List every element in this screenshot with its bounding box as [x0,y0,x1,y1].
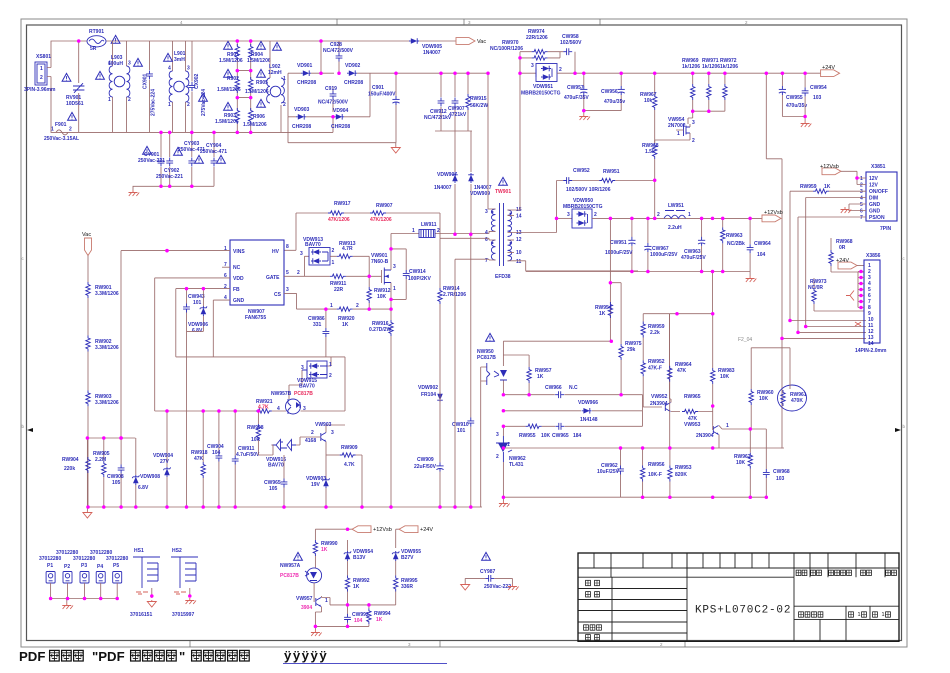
resistor RW901 [86,256,119,299]
diode VDW902 FR104 [418,385,443,402]
svg-text:105: 105 [112,480,121,486]
svg-text:6: 6 [860,209,863,215]
warning triangle above NW950 [486,333,495,341]
svg-text:1K: 1K [353,584,360,590]
capacitor CW904 104 [207,411,224,507]
svg-text:+12Vsb: +12Vsb [764,210,783,216]
svg-text:VW903: VW903 [315,422,332,428]
wire: standby bottom [315,626,369,630]
wire: link between resistor columns [237,71,250,98]
svg-text:4: 4 [485,230,488,236]
junction [119,505,123,509]
ferrite bead LW911 [391,222,489,238]
junction [582,109,586,113]
wire: pin6 [440,238,496,240]
svg-text:12V: 12V [869,176,879,182]
junction [439,71,443,75]
svg-text:ON/OFF: ON/OFF [869,189,888,195]
wire: opto feed row [503,340,610,342]
resistor R904 [247,41,271,79]
svg-text:GATE: GATE [266,275,280,281]
fuse F901 [44,122,79,142]
resistor RW970 NC/100R/1206 [490,40,560,60]
junction [749,427,753,431]
junction [236,131,240,135]
wire: VDD bus y411 [155,278,345,411]
capacitor CW992 104 [344,605,369,627]
BOTTOM TEXT LINE: PDF 文件以 "PDF 制作工厂" 试用版创建 ÿÿÿÿÿ [19,648,328,664]
junction [707,71,711,75]
pad P5 [106,556,128,599]
svg-text:1: 1 [507,442,510,448]
svg-text:TL431: TL431 [509,462,524,468]
junction [49,597,53,601]
diode VD902 [344,63,363,86]
wire: FB bottom rail [176,356,345,358]
svg-text:NW957B: NW957B [271,391,292,397]
wire: feed down to logic [766,73,782,448]
ground: CW954 [801,121,812,127]
svg-text:150uF/400V: 150uF/400V [368,92,396,98]
svg-text:GND: GND [233,298,245,304]
svg-text:FR104: FR104 [421,392,436,398]
junction [190,185,194,189]
wire: clamp bottom rail [435,131,472,172]
junction [781,71,785,75]
warning triangle below CX902 [199,93,208,101]
svg-text:1000uF/25V: 1000uF/25V [605,250,633,256]
wire: resistor trio bottom bus [693,111,725,118]
junction [212,131,216,135]
svg-text:BAV70: BAV70 [305,242,321,248]
junction [859,288,863,292]
resistor RW969 1k/1206 [682,58,700,111]
warning triangle CY904 [217,155,226,163]
svg-text:336R: 336R [401,584,413,590]
svg-text:R906: R906 [253,114,265,120]
ground: CY987 right [508,584,519,590]
svg-text:CW914: CW914 [409,269,426,275]
startup resistor row RW917 RW907 [284,201,440,250]
svg-text:7: 7 [860,215,863,221]
svg-text:3: 3 [860,189,863,195]
snubber row CW952 RW951 [557,168,655,218]
capacitor C919 [318,86,349,106]
resistor RW918 47K [191,411,208,507]
svg-text:3: 3 [567,212,570,218]
common mode choke L903 [108,41,131,132]
svg-text:37012280: 37012280 [39,556,61,562]
wire: bridge return rail [288,117,396,143]
junction [721,217,725,221]
bulk capacitor C901 [368,73,400,143]
svg-text:C901: C901 [372,85,384,91]
junction [324,505,328,509]
svg-text:1.5k: 1.5k [645,149,655,155]
svg-text:2: 2 [224,284,227,290]
junction [389,505,393,509]
svg-text:CHR208: CHR208 [344,80,363,86]
ground: primary bus left [83,507,92,518]
MOSFET VW901 7N60-B [371,234,396,310]
title block text 共1张 [873,612,891,618]
junction [86,436,90,440]
clamp diode VDW907 [434,172,458,234]
svg-text:VINS: VINS [233,249,245,255]
svg-text:4.7uF/50V: 4.7uF/50V [236,452,260,458]
svg-text:1000uF/25V: 1000uF/25V [650,252,678,258]
junction [249,96,253,100]
svg-text:1K: 1K [599,311,606,317]
svg-text:DIM: DIM [869,196,878,202]
net arrow Vac out [456,38,486,45]
wire: pin14 stub [508,215,515,217]
junction [619,393,623,397]
title block left rows [578,553,687,641]
svg-text:CHR208: CHR208 [297,80,316,86]
connector X3856 14PIN [855,253,887,354]
resistor RW911 22R [297,270,347,293]
svg-text:+24V: +24V [822,65,835,71]
junction [527,393,531,397]
svg-text:CW951: CW951 [610,240,627,246]
svg-text:1: 1 [860,176,863,182]
svg-text:CY987: CY987 [480,569,496,575]
connector XS801 [24,54,56,93]
dual diode VDW916 BAV70 [266,437,300,469]
svg-text:1.5M/1206: 1.5M/1206 [217,87,241,93]
svg-text:CW956: CW956 [601,89,618,95]
svg-text:10D561: 10D561 [66,101,84,107]
sense resistor RW916 0.27/2W [369,309,393,507]
Y-capacitor CY904 [200,132,227,186]
svg-text:250Vac-221: 250Vac-221 [138,158,165,164]
svg-text:5: 5 [286,270,289,276]
svg-text:2: 2 [329,373,332,379]
svg-text:RW956: RW956 [648,462,665,468]
resistor RW963 NC/2Bk [721,218,746,271]
svg-text:P2: P2 [64,564,70,570]
svg-text:10K-F: 10K-F [648,472,662,478]
junction [469,233,473,237]
transistor VW903 4168 [300,422,345,455]
svg-text:2: 2 [69,127,72,133]
svg-text:CS: CS [274,292,282,298]
wire: pin15 up [508,57,521,210]
junction [641,446,645,450]
shunt regulator NW962 TL431 [496,432,526,468]
svg-text:470uF/25V: 470uF/25V [681,255,706,261]
junction [675,312,679,316]
net arrow +12Vsb mid [762,210,783,222]
junction [619,446,623,450]
svg-text:1.5M/1206: 1.5M/1206 [219,58,243,64]
ground: X3851 gnd red [841,207,852,213]
resistor RW902 [86,298,119,352]
svg-text:CW964: CW964 [754,241,771,247]
svg-text:37015997: 37015997 [172,612,194,618]
transistor VW953 2N3904 [696,423,750,448]
clamp capacitor CW912 [424,73,452,131]
svg-text:10R: 10R [251,437,261,443]
junction [859,276,863,280]
svg-text:102/500V 10R/1206: 102/500V 10R/1206 [566,187,611,193]
svg-text:LW951: LW951 [668,203,684,209]
svg-text:1.5M/1206: 1.5M/1206 [245,89,269,95]
wire: RW954 branch row [610,218,621,344]
snubber capacitor CW914 100P/2KV [391,249,431,300]
title block text 第1张 [849,612,867,618]
net arrow +24V standby [399,526,433,533]
X-capacitor CX901 [143,41,157,132]
resistor RW975 29k [619,341,642,395]
junction [573,71,577,75]
capacitor CW966 N.C [545,385,578,398]
junction [77,39,81,43]
zener VDW903 19V [306,455,330,507]
junction [653,71,657,75]
junction [855,176,859,180]
net arrow +24V top [821,65,840,77]
junction [723,71,727,75]
warning triangle left of L902 [273,42,282,50]
svg-text:0.27D/2W: 0.27D/2W [369,327,392,333]
resistor RW955 10K [519,424,551,439]
junction [502,409,506,413]
wire: RW959 feed down [790,191,866,320]
svg-text:22R: 22R [334,287,344,293]
resistor RW959b 2.2k [641,314,665,361]
ground: 24V caps [579,114,590,120]
junction [201,505,205,509]
svg-text:GND: GND [869,209,881,215]
title block text 审核 [586,592,600,597]
border midpoint tick top [463,19,465,25]
capacitor CW956 470u/35v [601,73,625,110]
svg-text:P1: P1 [47,563,53,569]
svg-text:CW966: CW966 [545,385,562,391]
junction [453,505,457,509]
heatsink HS1 [130,548,160,618]
resistor R901 [219,41,243,79]
clamp capacitor CW907 [448,73,467,131]
wire: pin13 row [508,218,557,232]
capacitor CW951 1000uF/25V [605,218,636,271]
svg-text:4.7K: 4.7K [258,405,269,411]
junction [486,71,490,75]
svg-text:12mH: 12mH [268,70,282,76]
resistor RW913 4.7R [330,241,369,276]
svg-text:3.3M/1206: 3.3M/1206 [95,400,119,406]
svg-text:1: 1 [330,303,333,309]
capacitor CW963 470uF/25V [681,218,706,271]
junction [502,495,506,499]
svg-text:+12Vsb: +12Vsb [820,164,839,170]
wire: AC bottom rail [51,77,333,133]
svg-text:184: 184 [573,433,582,439]
resistor RW967 10k [640,73,657,143]
resistor RW990 1K [313,540,338,568]
svg-text:RW907: RW907 [376,203,393,209]
svg-text:VW952: VW952 [651,394,668,400]
junction [168,131,172,135]
junction [502,446,506,450]
wire: X3851 pins 1-2 feed [841,171,866,184]
warning triangle R902 [224,69,233,77]
svg-text:47K/1206: 47K/1206 [328,217,350,223]
svg-text:NW957A: NW957A [280,563,301,569]
svg-text:P3: P3 [81,563,87,569]
warning triangle above F901 [68,112,77,120]
junction [346,527,350,531]
warning triangle CY901 [143,146,152,154]
svg-text:2.2M: 2.2M [95,457,106,463]
svg-text:CW954: CW954 [810,85,827,91]
ground: standby [311,630,322,636]
svg-text:56K/2W: 56K/2W [470,103,488,109]
zener VDW906 6.8V [188,289,208,334]
junction [282,505,286,509]
junction [780,337,784,341]
optocoupler NW957A PC817B [280,563,322,596]
junction [859,300,863,304]
svg-text:VDW902: VDW902 [418,385,438,391]
ground: Y-cap bus [129,190,140,196]
capacitor CW958 102/560V [560,34,582,55]
svg-text:13: 13 [516,230,522,236]
wire: VW953 collector row [750,429,766,466]
heatsink HS2 [171,548,198,618]
svg-text:104: 104 [212,450,221,456]
junction [711,270,715,274]
svg-text:47K: 47K [194,456,204,462]
svg-text:470K: 470K [791,398,803,404]
svg-text:12V: 12V [869,183,879,189]
svg-text:1: 1 [40,66,43,72]
svg-text:1: 1 [108,97,111,103]
svg-text:470u/35v: 470u/35v [604,99,625,105]
svg-text:2: 2 [311,430,314,436]
wire: AC top rail L [51,41,284,68]
svg-text:10K: 10K [720,374,730,380]
transistor VW952 2N3904 [650,314,680,412]
wire: VDD pin6 [155,277,230,279]
svg-text:7N60-B: 7N60-B [371,259,389,265]
wire: standby mid row [348,604,396,606]
resistor RW983 10K [711,314,735,412]
wire: pad ground bus [51,599,118,604]
diode VD901 [297,63,316,86]
svg-text:10uF/25V: 10uF/25V [597,469,620,475]
junction [668,495,672,499]
Y-capacitor CY987 250Vac-222 [465,569,512,590]
bottom blue underline [283,663,447,665]
svg-text:1: 1 [224,246,227,252]
svg-text:CHR208: CHR208 [292,124,311,130]
svg-text:1N4007: 1N4007 [434,185,452,191]
wire: bridge bottom row [288,116,370,118]
junction [859,282,863,286]
resistor R905x [245,77,269,110]
svg-text:2: 2 [692,138,695,144]
junction [314,625,318,629]
svg-text:1N4007: 1N4007 [423,50,441,56]
wire: NC pin7 stub [222,266,230,268]
svg-text:2N3904: 2N3904 [650,401,668,407]
junction [134,505,138,509]
svg-text:1K: 1K [342,322,349,328]
junction [360,505,364,509]
svg-text:37016151: 37016151 [130,612,152,618]
svg-text:2N3904: 2N3904 [696,433,714,439]
junction [438,505,442,509]
svg-text:VD902: VD902 [345,63,361,69]
svg-text:37012280: 37012280 [73,556,95,562]
wire: pin10 stub [508,252,515,254]
wire: pin11 to 0V rail [508,261,639,271]
ground: primary bulk [391,143,400,153]
junction [859,294,863,298]
junction [691,71,695,75]
warning triangle TP901 [495,177,511,195]
warning triangle CY902 [174,147,183,155]
junction [641,495,645,499]
svg-text:NC/472/500V: NC/472/500V [318,100,349,106]
svg-text:250Vac-222: 250Vac-222 [484,584,511,590]
junction [619,71,623,75]
wire: pin14 row to bus [782,337,866,339]
connector X3851 7PIN [860,164,897,232]
svg-text:CW909: CW909 [417,457,434,463]
pad P4 [90,550,112,599]
wire: standby top row [315,529,399,548]
resistor RW954 1K [595,302,613,318]
junction [646,270,650,274]
svg-text:2: 2 [437,228,440,234]
diode VD904 [331,108,350,130]
svg-text:0R: 0R [839,245,846,251]
svg-text:2.2k: 2.2k [650,330,660,336]
wire: left sub-bus [87,437,135,439]
svg-text:19V: 19V [311,482,321,488]
svg-text:2N7002: 2N7002 [668,123,686,129]
svg-text:Vac: Vac [82,232,91,238]
svg-text:NC/0R: NC/0R [808,285,823,291]
junction [711,495,715,499]
title block top strip rows [578,568,899,577]
svg-text:FAN6755: FAN6755 [245,315,266,321]
capacitor CW962 10uF/25V [597,448,624,497]
zener VDW955 B27V [392,549,421,576]
svg-text:10K: 10K [759,396,769,402]
junction [257,409,261,413]
svg-text:VW953: VW953 [684,422,701,428]
junction [159,185,163,189]
warning triangle R906 [257,99,266,107]
svg-text:103: 103 [813,95,822,101]
svg-text:4.7R: 4.7R [342,246,353,252]
wire: DIM pin4 [806,198,866,327]
wire: fb row2 [503,395,642,411]
title block top strip verticals [594,553,885,577]
junction [389,307,393,311]
wire: pin12 stub [508,239,515,241]
svg-text:47K: 47K [677,368,687,374]
zener VDW904 27V [153,411,173,507]
svg-text:250Vac-3.15AL: 250Vac-3.15AL [44,136,79,142]
svg-text:CW957: CW957 [567,85,584,91]
svg-text:CW965: CW965 [552,433,569,439]
